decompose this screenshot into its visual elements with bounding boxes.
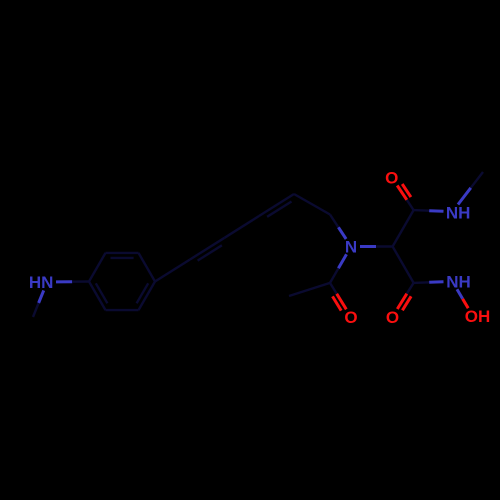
- chain bond C4-K1: [155, 260, 190, 282]
- bond acetyl C-CH3: [289, 283, 330, 296]
- chain double bond K1=K2: [190, 238, 225, 260]
- ring bond C1-C2: [89, 253, 106, 282]
- bond topC-NH: [414, 209, 430, 212]
- ring bond C6-C1 (double): [89, 282, 106, 311]
- bond botC-NH: [414, 281, 430, 284]
- double bond bottom C=O: [407, 283, 414, 294]
- double bond top C=O: [407, 200, 414, 210]
- ring bond C3-C4: [139, 253, 156, 282]
- ring bond C4-C5 (double): [139, 282, 156, 311]
- bond centralC-top carbonyl C: [393, 210, 414, 246]
- ring bond C2-C3 (double): [106, 252, 139, 254]
- svg-text:O: O: [344, 308, 357, 327]
- svg-text:NH: NH: [446, 203, 471, 222]
- bond acetyl C-N2: [330, 268, 338, 283]
- bond N2-central C: [360, 245, 376, 248]
- svg-text:O: O: [386, 308, 399, 327]
- svg-text:HN: HN: [29, 273, 54, 292]
- double bond acetyl C=O: [330, 283, 337, 294]
- bond K5-N2: [330, 215, 338, 228]
- bond centralC-bottom carbonyl C: [393, 247, 414, 283]
- svg-text:OH: OH: [465, 307, 491, 326]
- chain double bond K3=K4: [259, 194, 294, 216]
- bond NH-OH: [457, 289, 463, 299]
- bond N1-ring C1: [56, 280, 72, 283]
- svg-text:NH: NH: [446, 273, 471, 292]
- svg-text:O: O: [385, 168, 398, 187]
- chain bond K4-K5: [294, 194, 330, 215]
- bond N1-CH3 methyl: [39, 290, 44, 303]
- ring bond C5-C6: [106, 309, 139, 311]
- bond top NH-CH3: [458, 188, 471, 205]
- svg-text:N: N: [345, 238, 357, 257]
- chain bond K2-K3: [225, 216, 260, 238]
